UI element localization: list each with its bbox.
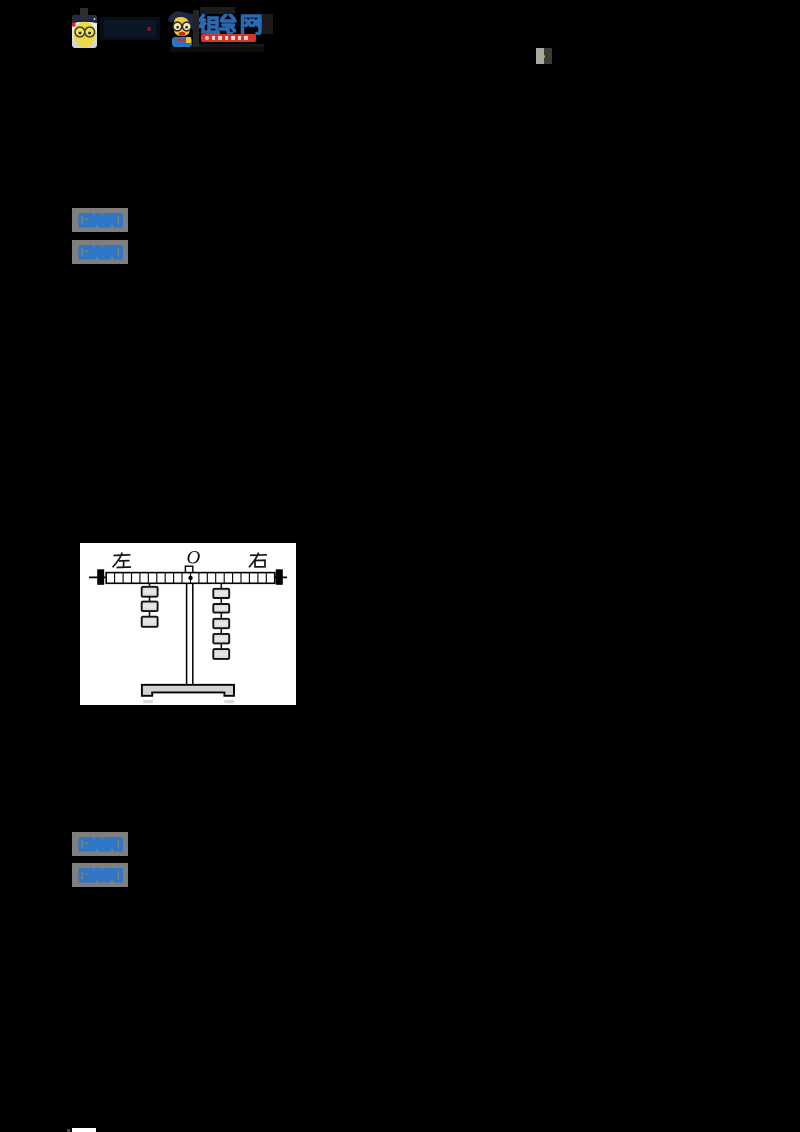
svg-text:O: O	[187, 547, 201, 568]
